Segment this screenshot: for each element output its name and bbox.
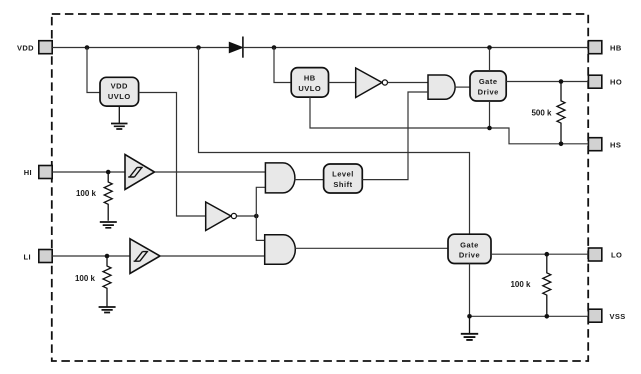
svg-text:HB: HB [304, 74, 316, 83]
svg-text:Level: Level [332, 170, 354, 179]
svg-text:Drive: Drive [478, 87, 499, 96]
node junction HB rail/gate-drive top [487, 45, 492, 50]
op-amp U1 VDD UVLO block [100, 77, 139, 106]
wire inverter U3 output to AND gate U5 input A [388, 82, 429, 84]
op-amp U2 HB UVLO block [291, 68, 328, 98]
svg-text:500 k: 500 k [531, 109, 552, 118]
wire Gate Drive U7 top supply to HB rail [489, 48, 491, 72]
wire Gate Drive U7 bottom to HS net [489, 101, 491, 128]
resistor R4 100k [510, 254, 550, 316]
pin HI [24, 166, 53, 179]
node junction inverter U4 output split [254, 214, 259, 219]
pin HS [588, 138, 621, 151]
node junction HS net/resistor R2 [559, 142, 564, 147]
pin LI [24, 250, 53, 263]
svg-text:VDD: VDD [17, 43, 34, 52]
pin HB [588, 41, 621, 54]
svg-text:HB: HB [610, 43, 622, 52]
node junction LI/resistor R3 [105, 254, 110, 259]
svg-text:100 k: 100 k [76, 189, 97, 198]
resistor R2 500k [531, 82, 565, 144]
wire Gate Drive U12 bottom to VSS net [469, 264, 471, 317]
pin VSS [588, 309, 625, 322]
wire VDD UVLO output to inverter U4 input [139, 93, 206, 217]
ground (VDD UVLO) [111, 106, 128, 129]
op-amp U7 Gate Drive block (high side) [470, 71, 506, 101]
svg-text:LO: LO [611, 251, 622, 260]
wire HS net (HB UVLO reference to pin HS) [310, 97, 588, 144]
wire inverter U4 output [237, 215, 257, 217]
svg-text:HS: HS [610, 140, 621, 149]
svg-text:100 k: 100 k [510, 280, 531, 289]
pin LO [588, 248, 622, 261]
node junction HI/resistor R1 [106, 170, 111, 175]
transistor Q2 Schmitt trigger buffer (LI) [130, 239, 160, 274]
wire to AND U6 input B [256, 187, 265, 216]
wire VDD rail to low-side gate drive supply [199, 48, 470, 235]
node junction VSS/resistor R4 [545, 314, 550, 319]
op-amp U12 Gate Drive block (low side) [448, 234, 491, 263]
node junction LO/resistor R4 [545, 252, 550, 257]
node junction HO/resistor R2 [559, 79, 564, 84]
ground (VSS) [461, 316, 478, 340]
svg-text:Gate: Gate [460, 240, 479, 249]
svg-text:HO: HO [610, 78, 622, 87]
svg-text:LI: LI [24, 252, 31, 261]
diode D1 [229, 37, 243, 58]
wire VDD rail (pin VDD to diode anode) [52, 47, 229, 49]
wire to AND U9 input A [256, 216, 264, 240]
wire AND U9 output to Gate Drive U12 [295, 247, 448, 249]
AND gate U9 (LI path) [265, 235, 296, 264]
svg-text:UVLO: UVLO [108, 92, 131, 101]
wire AND gate U5 output to Gate Drive U7 [455, 86, 471, 88]
AND gate U5 (high side) [428, 75, 455, 99]
ground (R3) [99, 307, 116, 313]
svg-text:UVLO: UVLO [298, 84, 321, 93]
resistor R1 100k [76, 172, 112, 221]
wire Level Shift output to AND U5 input B [362, 92, 428, 180]
op-amp U10 Level Shift block [324, 164, 363, 193]
AND gate U6 (HI path) [265, 163, 295, 193]
pin VDD [17, 41, 52, 54]
wire HB UVLO output to inverter U3 [329, 82, 356, 84]
wire Schmitt U11 output to AND U9 input B [160, 255, 265, 257]
svg-text:100 k: 100 k [75, 274, 96, 283]
transistor Q1 Schmitt trigger buffer (HI) [125, 155, 155, 190]
node junction HB rail/HB-UVLO branch [272, 45, 277, 50]
ground (R1) [100, 222, 117, 228]
inverter U3 (high side) [356, 68, 388, 98]
wire HB rail (diode cathode to pin HB) [243, 47, 589, 49]
node junction HS net/gate drive bottom [487, 126, 492, 131]
node junction VDD/low-driver branch [196, 45, 201, 50]
svg-text:VSS: VSS [610, 312, 626, 321]
wire Schmitt U8 output to AND gate U6 input A [155, 171, 266, 173]
wire AND U6 output to Level Shift [294, 179, 324, 181]
svg-text:Shift: Shift [333, 180, 352, 189]
wire LO output [491, 253, 588, 255]
svg-text:VDD: VDD [111, 82, 128, 91]
inverter U4 (UVLO signal) [206, 202, 237, 231]
svg-text:Gate: Gate [479, 77, 498, 86]
wire VDD to VDD UVLO input [87, 48, 100, 93]
wire HI pin to Schmitt trigger U8 [52, 171, 125, 173]
svg-text:Drive: Drive [459, 251, 480, 260]
node junction VSS/gate drive ground [467, 314, 472, 319]
node junction VDD/UVLO branch [85, 45, 90, 50]
resistor R3 100k [75, 256, 111, 307]
wire LI pin to Schmitt trigger U11 [52, 255, 130, 257]
wire VSS net to pin VSS [470, 315, 589, 317]
wire to HB UVLO input [274, 48, 291, 83]
wire HO output [506, 81, 588, 83]
pin HO [588, 75, 622, 88]
IC dashed boundary [52, 14, 588, 361]
svg-text:HI: HI [24, 168, 32, 177]
